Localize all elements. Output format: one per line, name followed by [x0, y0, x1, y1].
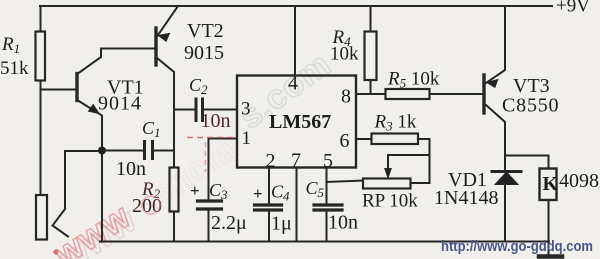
svg-text:9014: 9014: [98, 93, 142, 115]
svg-text:9015: 9015: [184, 42, 224, 64]
svg-text:+9V: +9V: [556, 0, 590, 17]
transistor VT1: [77, 49, 102, 151]
svg-text:C8550: C8550: [502, 95, 559, 117]
wire VT2 collector to C2: [174, 109, 195, 111]
svg-text:1μ: 1μ: [271, 213, 292, 235]
relay K coil: [540, 169, 557, 201]
wire RP wiper tie: [388, 155, 430, 170]
svg-text:+: +: [190, 181, 200, 200]
svg-text:4: 4: [288, 73, 298, 95]
wire pin 5 to C5: [326, 168, 328, 204]
wire R4 branch: [370, 6, 372, 94]
wire R5 to VT3 base: [430, 93, 484, 95]
capacitor C1: [102, 142, 174, 159]
resistor R2: [170, 168, 179, 242]
wire relay branch: [505, 156, 549, 169]
svg-text:VT2: VT2: [187, 20, 224, 42]
wire piezo right electrode feed: [65, 151, 102, 209]
wire top +9V rail: [40, 5, 552, 7]
capacitor C4: [255, 205, 282, 242]
wire relay to bottom terminal: [548, 200, 550, 255]
resistor R5: [386, 89, 430, 99]
svg-text:10n: 10n: [201, 110, 231, 132]
wire R3 right to RP right terminal: [411, 139, 430, 183]
watermark red dashed vertical: [205, 142, 207, 172]
potentiometer RP: [363, 179, 411, 189]
IC U1 LM567 body: [237, 76, 356, 168]
svg-text:RP 10k: RP 10k: [362, 191, 418, 212]
wire R1 branch vertical: [40, 6, 42, 195]
capacitor C5: [314, 205, 342, 242]
wire pin 8 to R5: [356, 93, 386, 95]
resistor R4: [365, 32, 377, 81]
svg-text:http://www.go-gddq.com: http://www.go-gddq.com: [441, 238, 593, 255]
watermark red dot: [53, 249, 58, 254]
wire pin 1 to C3: [209, 139, 238, 200]
resistor R1: [36, 32, 46, 81]
svg-text:R3 1k: R3 1k: [374, 112, 417, 134]
svg-text:6: 6: [340, 130, 350, 152]
svg-text:1N4148: 1N4148: [434, 187, 498, 209]
wire pin 2 to C4: [268, 168, 270, 204]
RP wiper arrow: [385, 169, 391, 179]
svg-text:1: 1: [242, 128, 252, 149]
wire bottom ground rail: [100, 241, 549, 243]
wire emitter node vertical to ground: [101, 151, 103, 242]
capacitor C3: [198, 201, 222, 242]
resistor R3: [372, 134, 419, 145]
capacitor C2: [196, 99, 237, 121]
node emitter/C1 junction: [98, 147, 106, 155]
piezo transducer B: [36, 195, 68, 240]
svg-text:8: 8: [341, 86, 351, 108]
svg-text:2.2μ: 2.2μ: [211, 212, 247, 234]
svg-text:10n: 10n: [116, 158, 146, 180]
svg-text:4098: 4098: [559, 170, 599, 192]
watermark pink ring over 200: [142, 196, 160, 214]
wire pin 4 to +9V: [294, 6, 296, 76]
svg-text:3: 3: [241, 99, 251, 120]
svg-text:51k: 51k: [0, 58, 29, 79]
wire pin 5 to RP left: [327, 181, 364, 183]
wire VT1 base: [41, 89, 77, 91]
diode VD1: [492, 172, 521, 242]
svg-text:7: 7: [291, 150, 301, 172]
terminal bar bottom: [539, 254, 562, 259]
svg-text:5: 5: [323, 150, 333, 172]
wire VT2 collector down to C1/R2 node: [173, 72, 175, 168]
svg-text:K: K: [543, 173, 559, 195]
svg-text:10n: 10n: [328, 212, 358, 234]
svg-text:+: +: [253, 184, 263, 203]
svg-text:10k: 10k: [330, 44, 359, 65]
svg-text:R5 10k: R5 10k: [387, 69, 440, 91]
svg-text:LM567: LM567: [269, 111, 331, 133]
watermark red dashed line: [187, 137, 236, 139]
svg-text:2: 2: [266, 150, 276, 172]
wire pin 7 to ground: [296, 168, 298, 242]
wire VT1 collector to VT2 base: [101, 48, 156, 50]
wire pin 6 to R3: [356, 138, 372, 140]
transistor VT3: [484, 6, 505, 170]
transistor VT2: [156, 6, 178, 110]
